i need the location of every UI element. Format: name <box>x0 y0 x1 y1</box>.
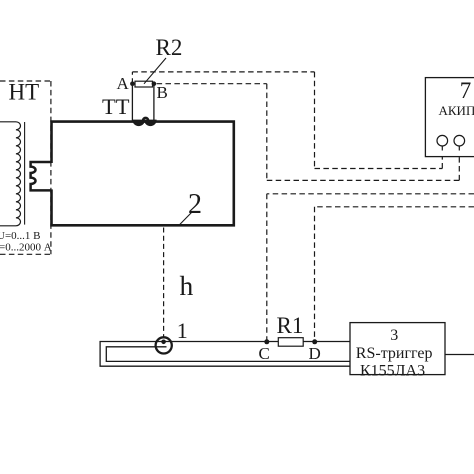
sensor 1 circle on busbar <box>156 337 172 353</box>
node A junction dot <box>130 81 135 86</box>
junction dot of h line on busbar <box>161 340 166 345</box>
svg-text:С: С <box>259 344 270 363</box>
svg-text:R1: R1 <box>277 313 304 338</box>
svg-text:ТТ: ТТ <box>102 94 130 119</box>
node B junction dot <box>152 81 157 86</box>
resistor R1 body <box>278 338 303 347</box>
svg-text:А: А <box>117 74 130 93</box>
wire dashed down to node D <box>314 207 316 341</box>
node C junction dot <box>264 339 269 344</box>
leader line from label R2 to resistor <box>144 58 166 84</box>
wire dashed up to left terminal stem <box>441 149 443 169</box>
transformer NT primary winding <box>0 122 21 226</box>
svg-text:АКИП–: АКИП– <box>439 103 474 118</box>
wire dashed down at x=314.5 <box>314 72 316 169</box>
terminal stem right <box>458 146 460 151</box>
wire from node B down to TT <box>153 85 155 121</box>
wire dashed horizontal to node D from right edge <box>315 206 474 208</box>
busbar inner outline <box>106 347 350 362</box>
wire dashed from node A up <box>131 72 133 84</box>
transformer NT secondary winding (notch in block 2 left edge) <box>31 162 52 190</box>
wire dashed h distance line <box>163 228 165 338</box>
wire dashed horizontal to node C from right edge <box>267 193 474 195</box>
wire dashed HT box bottom edge <box>0 253 51 255</box>
wire dashed HT box top edge <box>0 80 51 82</box>
transformer NT core line <box>24 122 26 225</box>
wire dashed down at x=266.8 <box>266 84 268 181</box>
busbar outer outline <box>100 342 350 367</box>
terminal circle left of box 7 <box>437 135 448 146</box>
terminal stem left <box>441 146 443 151</box>
leader line from label 2 to block 2 <box>180 212 193 225</box>
block 3 RS-trigger box <box>350 323 445 375</box>
node D junction dot <box>312 339 317 344</box>
svg-text:3: 3 <box>390 327 398 344</box>
svg-text:2: 2 <box>188 189 202 220</box>
output wire from block 3 <box>445 354 474 356</box>
svg-text:h: h <box>180 270 194 301</box>
wire from node A down to TT <box>131 85 133 121</box>
svg-text:1: 1 <box>177 318 188 343</box>
svg-text:D: D <box>309 344 321 363</box>
wire dashed right to instrument 7 right terminal <box>267 179 460 181</box>
svg-text:R2: R2 <box>156 35 183 60</box>
terminal circle right of box 7 <box>454 135 465 146</box>
svg-text:RS-триггер: RS-триггер <box>356 345 433 362</box>
wire dashed HT box right edge <box>50 81 52 254</box>
block 2 outline (current source body) <box>52 122 234 226</box>
svg-text:=0...2000 А: =0...2000 А <box>0 241 52 253</box>
resistor R2 body <box>135 81 153 87</box>
svg-text:7: 7 <box>460 78 472 103</box>
instrument box 7 (AKIP) <box>425 78 474 157</box>
wire dashed right to instrument 7 left terminal <box>315 168 443 170</box>
svg-text:В: В <box>157 83 168 102</box>
wire dashed down to node C <box>266 194 268 341</box>
transformer TT winding bumps on top edge of block 2 <box>133 120 156 125</box>
svg-text:НТ: НТ <box>9 80 40 105</box>
wire dashed from A to right at y=71.9 <box>132 71 314 73</box>
svg-text:U=0...1 В: U=0...1 В <box>0 230 40 242</box>
wire dashed from node B right at y=83.7 <box>157 83 267 85</box>
svg-text:К155ЛА3: К155ЛА3 <box>360 362 425 379</box>
wire dashed up to right terminal stem <box>458 149 460 180</box>
